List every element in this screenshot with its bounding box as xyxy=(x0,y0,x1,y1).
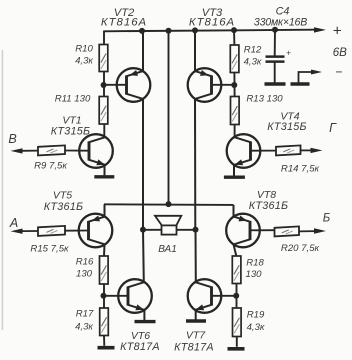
svg-text:А: А xyxy=(9,216,18,230)
svg-text:В: В xyxy=(8,132,16,146)
resistor R9 xyxy=(38,145,65,155)
svg-text:КТ816А: КТ816А xyxy=(189,16,235,28)
svg-text:КТ816А: КТ816А xyxy=(101,16,147,28)
svg-text:Г: Г xyxy=(329,121,337,135)
resistor R10 xyxy=(99,45,108,72)
label VT3 type КТ816А xyxy=(189,16,235,28)
terminal Б output arrow xyxy=(299,228,326,233)
svg-text:6В: 6В xyxy=(333,47,347,59)
wire: VT2 emitter to top rail xyxy=(142,31,144,71)
resistor R16 xyxy=(100,256,109,284)
label R15 value 7,5к xyxy=(30,244,69,255)
resistor R20 xyxy=(275,226,300,236)
svg-text:R13 130: R13 130 xyxy=(246,94,283,105)
label VT5 type КТ361Б xyxy=(44,201,84,213)
svg-text:R15 7,5к: R15 7,5к xyxy=(30,244,69,255)
resistor R15 xyxy=(38,226,65,236)
wire: R18 to VT7 base node xyxy=(236,284,238,309)
label R9 value 7,5к xyxy=(34,161,67,172)
label А terminal xyxy=(9,216,18,230)
svg-text:КТ817А: КТ817А xyxy=(174,341,214,353)
transistor VT1 xyxy=(79,134,113,168)
label VT2 xyxy=(114,7,135,19)
node: speaker left node xyxy=(140,227,146,233)
terminal Г output arrow xyxy=(301,148,323,153)
label VT2 type КТ816А xyxy=(101,16,147,28)
svg-text:КТ315Б: КТ315Б xyxy=(267,121,307,133)
wire: R9 to VT1 base xyxy=(65,150,89,152)
svg-text:R11 130: R11 130 xyxy=(55,94,91,105)
svg-text:4,3к: 4,3к xyxy=(75,56,93,67)
wire: R11 to VT1 collector xyxy=(103,124,105,137)
wire: VT5 emitter to bus xyxy=(104,204,106,216)
svg-text:КТ361Б: КТ361Б xyxy=(249,200,289,212)
node: top rail / VT2 emitter xyxy=(139,28,145,34)
terminal + (supply) arrow xyxy=(314,27,326,32)
svg-text:R17: R17 xyxy=(76,309,94,320)
label R17 value 4,3к xyxy=(75,322,93,333)
ground (minus terminal) xyxy=(291,82,310,86)
wire: base node to VT2 xyxy=(104,84,127,86)
resistor R18 xyxy=(232,256,241,284)
wire: VT5 collector to R16 xyxy=(103,244,106,256)
wire: R15 to VT5 base xyxy=(65,230,89,232)
wire: VT6 emitter to ground xyxy=(143,310,145,320)
label C4 polarity + xyxy=(286,48,291,58)
label VT6 xyxy=(131,330,150,342)
label R12 xyxy=(244,45,262,56)
wire: VT7 base wire xyxy=(212,295,237,297)
label BA1 xyxy=(158,244,177,255)
svg-text:130: 130 xyxy=(76,269,93,280)
label VT5 xyxy=(53,190,72,202)
capacitor C4 bottom plate xyxy=(266,60,285,63)
wire: VT2 collector down to speaker node xyxy=(142,99,144,230)
transistor VT5 xyxy=(79,214,113,248)
svg-text:330мк×16В: 330мк×16В xyxy=(254,16,307,28)
svg-text:R14 7,5к: R14 7,5к xyxy=(281,164,320,175)
label VT8 xyxy=(257,189,276,201)
node: top rail / R12 xyxy=(231,27,237,33)
wire: R10 to VT2 base node xyxy=(103,72,105,97)
label − (minus terminal) xyxy=(335,65,342,79)
svg-text:R9 7,5к: R9 7,5к xyxy=(34,161,67,172)
node: VT7 base junction xyxy=(233,293,239,299)
label VT1 type КТ315Б xyxy=(51,125,91,137)
label + (plus terminal) xyxy=(333,23,342,40)
svg-text:КТ315Б: КТ315Б xyxy=(51,125,91,137)
wire: VT5/VT8 emitter bus xyxy=(104,203,234,206)
node: top rail / C4 xyxy=(272,27,278,33)
capacitor C4 top plate xyxy=(266,55,285,58)
label R10 value 4,3к xyxy=(75,56,93,67)
resistor R11 xyxy=(99,97,108,125)
wire: mid rail from top to emitters wire xyxy=(168,31,170,205)
wire: VT4 emitter to ground xyxy=(233,165,235,176)
label 6В supply voltage xyxy=(333,47,347,59)
label R18 value 130 xyxy=(245,269,262,280)
wire: VT8 base to R20 xyxy=(250,229,275,231)
wire: top rail down to R10 xyxy=(103,31,105,45)
label В terminal xyxy=(8,132,16,146)
svg-text:4,3к: 4,3к xyxy=(247,322,265,333)
label VT7 xyxy=(186,330,206,342)
svg-text:VT8: VT8 xyxy=(257,189,276,201)
svg-text:R10: R10 xyxy=(75,44,93,55)
wire: top rail down to R12 xyxy=(233,30,235,45)
transistor VT2 xyxy=(117,68,151,102)
label R18 xyxy=(246,258,264,269)
svg-text:VT7: VT7 xyxy=(186,330,206,342)
svg-text:R16: R16 xyxy=(76,257,94,268)
label Б terminal xyxy=(323,212,331,224)
svg-text:4,3к: 4,3к xyxy=(75,322,93,333)
scan page edge line xyxy=(1,50,3,330)
svg-text:Б: Б xyxy=(323,212,331,224)
node: top rail / VT3 emitter xyxy=(192,27,198,33)
wire: minus terminal xyxy=(299,72,315,83)
wire: R16 to VT6 base node xyxy=(103,284,105,308)
label R10 xyxy=(75,44,93,55)
resistor R13 xyxy=(231,97,240,125)
ground (C4) xyxy=(265,82,286,86)
label VT8 type КТ361Б xyxy=(249,200,289,212)
terminal А input arrow xyxy=(11,229,39,234)
label Г terminal xyxy=(329,121,337,135)
node: speaker right node xyxy=(193,227,199,233)
terminal В input arrow xyxy=(11,148,39,153)
label VT6 type КТ817А xyxy=(120,341,160,353)
node: VT2 base junction xyxy=(101,82,107,88)
ground (R19) xyxy=(228,347,245,351)
ground (R17) xyxy=(98,346,115,350)
svg-text:R18: R18 xyxy=(246,258,264,269)
label R20 value 7,5к xyxy=(281,243,320,254)
wire: VT3 collector down to speaker node xyxy=(194,99,196,230)
wire: top rail to C4 xyxy=(274,30,276,56)
label VT3 xyxy=(202,7,223,19)
transistor VT8 xyxy=(226,214,260,248)
resistor R14 xyxy=(276,145,301,155)
wire: VT7 emitter to ground xyxy=(195,310,197,320)
label VT1 xyxy=(62,114,81,126)
wire: R12 to VT3 base node xyxy=(233,73,235,97)
svg-text:КТ361Б: КТ361Б xyxy=(44,201,84,213)
label C4 xyxy=(276,5,290,17)
svg-text:−: − xyxy=(335,65,342,79)
transistor VT7 xyxy=(188,279,222,313)
svg-text:R12: R12 xyxy=(244,45,262,56)
label R14 value 7,5к xyxy=(281,164,320,175)
wire: VT4 base to R14 xyxy=(251,150,277,152)
label R16 value 130 xyxy=(76,269,93,280)
svg-text:130: 130 xyxy=(245,269,262,280)
label VT4 xyxy=(280,111,299,123)
svg-text:R20 7,5к: R20 7,5к xyxy=(281,243,320,254)
loudspeaker BA1 box xyxy=(162,225,177,234)
transistor VT6 xyxy=(118,279,152,313)
label R11 value xyxy=(55,94,91,105)
wire: VT6 collector to speaker node xyxy=(142,230,145,282)
wire: R19 to ground xyxy=(236,337,238,347)
label C4 value 330мк×16В xyxy=(254,16,307,28)
ground (VT6 emitter) xyxy=(135,320,156,323)
wire: C4 to ground xyxy=(274,62,276,83)
wire: speaker to right node xyxy=(177,229,196,231)
ground (VT7 emitter) xyxy=(186,319,206,322)
svg-text:R19: R19 xyxy=(247,310,265,321)
svg-text:ВА1: ВА1 xyxy=(158,244,177,255)
wire: VT7 collector to speaker node xyxy=(195,230,197,282)
node: top rail / mid rail xyxy=(166,28,172,34)
wire: R13 to VT4 collector xyxy=(234,125,236,138)
wire: left node to speaker xyxy=(143,229,162,231)
node: mid rail / emitter bus xyxy=(166,201,172,207)
svg-text:+: + xyxy=(333,23,342,40)
terminal − arrow xyxy=(311,70,322,75)
svg-text:4,3к: 4,3к xyxy=(244,57,262,68)
node: VT6 base junction xyxy=(101,293,107,299)
loudspeaker BA1 cone xyxy=(155,216,181,226)
resistor R17 xyxy=(100,308,109,336)
svg-text:КТ817А: КТ817А xyxy=(120,341,160,353)
label R19 xyxy=(247,310,265,321)
ground (VT1 emitter) xyxy=(94,175,114,178)
svg-text:+: + xyxy=(286,48,291,58)
ground (VT4 emitter) xyxy=(224,175,245,178)
resistor R19 xyxy=(233,308,242,337)
label R19 value 4,3к xyxy=(247,322,265,333)
svg-text:VT5: VT5 xyxy=(53,190,72,202)
label R17 xyxy=(76,309,94,320)
wire: VT6 base wire xyxy=(104,295,129,297)
wire: VT8 emitter to bus corner xyxy=(233,205,235,217)
wire: VT3 base to R12/R13 node xyxy=(212,84,235,86)
label VT4 type КТ315Б xyxy=(267,121,307,133)
label R13 value xyxy=(246,94,283,105)
resistor R12 xyxy=(230,45,239,73)
label VT7 type КТ817А xyxy=(174,341,214,353)
label R16 xyxy=(76,257,94,268)
wire: +6V top supply rail xyxy=(104,30,314,32)
wire: R17 to ground xyxy=(103,336,105,346)
wire: VT1 emitter to ground xyxy=(104,165,106,175)
wire: VT3 emitter to top rail xyxy=(194,30,196,71)
transistor VT4 xyxy=(227,134,261,168)
transistor VT3 xyxy=(188,68,222,102)
node: VT3 base junction xyxy=(231,82,237,88)
wire: VT8 collector to R18 xyxy=(234,244,237,256)
label R12 value 4,3к xyxy=(244,57,262,68)
